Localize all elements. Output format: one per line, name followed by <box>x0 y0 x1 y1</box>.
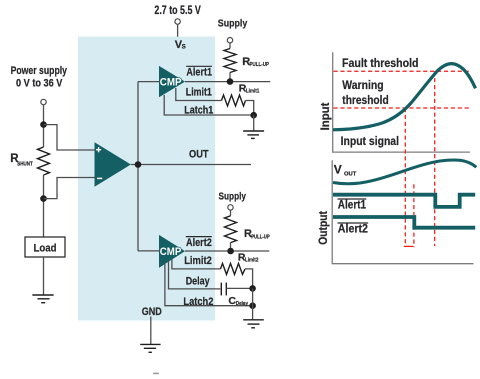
svg-text:Warning: Warning <box>342 78 383 92</box>
svg-text:Supply: Supply <box>219 191 247 203</box>
svg-text:Input: Input <box>320 102 332 130</box>
svg-text:Fault threshold: Fault threshold <box>342 56 419 70</box>
svg-text:0 V to 36 V: 0 V to 36 V <box>16 77 63 89</box>
svg-text:Limit1: Limit1 <box>186 87 212 99</box>
svg-text:GND: GND <box>142 306 162 318</box>
svg-text:V: V <box>334 163 342 177</box>
svg-text:Alert1: Alert1 <box>186 67 212 79</box>
svg-text:Latch2: Latch2 <box>183 296 213 308</box>
svg-text:CMP: CMP <box>160 76 182 88</box>
svg-text:Delay: Delay <box>236 301 249 307</box>
svg-text:Limit1: Limit1 <box>246 89 260 95</box>
svg-text:Limit2: Limit2 <box>245 257 259 263</box>
svg-text:Alert2: Alert2 <box>338 224 368 236</box>
svg-text:Load: Load <box>34 243 57 255</box>
svg-text:PULL-UP: PULL-UP <box>250 62 270 68</box>
svg-text:Power supply: Power supply <box>11 65 68 77</box>
svg-text:Alert1: Alert1 <box>338 200 367 212</box>
svg-text:CMP: CMP <box>160 246 182 258</box>
svg-text:Delay: Delay <box>186 275 210 287</box>
svg-text:threshold: threshold <box>342 93 388 107</box>
svg-text:PULL-UP: PULL-UP <box>251 234 270 240</box>
svg-text:Output: Output <box>318 211 330 245</box>
svg-text:Latch1: Latch1 <box>184 104 213 116</box>
svg-text:2.7 to 5.5 V: 2.7 to 5.5 V <box>154 5 201 17</box>
svg-text:OUT: OUT <box>344 172 357 178</box>
svg-text:OUT: OUT <box>189 149 209 161</box>
svg-text:Supply: Supply <box>218 18 248 30</box>
svg-text:Limit2: Limit2 <box>184 255 212 267</box>
svg-text:Input signal: Input signal <box>341 134 399 148</box>
svg-text:S: S <box>182 44 186 51</box>
svg-text:Alert2: Alert2 <box>186 237 212 249</box>
svg-text:SHUNT: SHUNT <box>17 161 33 167</box>
